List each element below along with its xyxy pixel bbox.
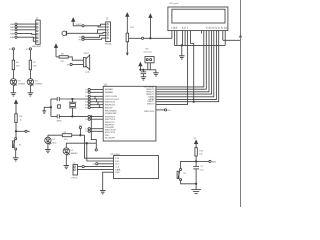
wire bus D1 xyxy=(156,31,204,87)
junction RA5 xyxy=(15,131,16,132)
svg-text:RB1/RX/DT: RB1/RX/DT xyxy=(105,116,116,118)
svg-text:S1: S1 xyxy=(19,144,22,146)
wire junction to node xyxy=(17,130,25,132)
switch S1 xyxy=(12,138,22,150)
U1 pin TX xyxy=(85,118,103,121)
resistor R4 xyxy=(15,114,23,123)
junction bus RW xyxy=(193,101,194,102)
svg-text:RA1: RA1 xyxy=(10,26,15,29)
svg-text:D3: D3 xyxy=(18,80,22,82)
ground S1 xyxy=(13,158,19,161)
5V supply arrow R11 xyxy=(126,13,129,33)
wire 5V to R6 xyxy=(12,50,14,60)
U1 pin LED1 xyxy=(85,128,103,131)
svg-text:RA3/AN3: RA3/AN3 xyxy=(105,91,114,94)
wire trimmer rail xyxy=(140,69,156,71)
wire R7 to D4 xyxy=(29,70,31,79)
node aux xyxy=(95,149,97,151)
5V supply arrow J1 xyxy=(72,18,82,26)
svg-text:TX0: TX0 xyxy=(115,158,120,160)
node 5V mid xyxy=(79,125,82,135)
svg-text:J1: J1 xyxy=(106,18,109,20)
wire bus D4 xyxy=(156,31,212,95)
wire 5V to R7 xyxy=(29,50,31,60)
ground U2 xyxy=(100,191,106,194)
microcontroller U1 xyxy=(103,84,156,141)
svg-text:C1: C1 xyxy=(200,166,204,168)
svg-text:SERIAL: SERIAL xyxy=(105,43,113,46)
svg-text:RA0: RA0 xyxy=(10,23,15,26)
connector J4 xyxy=(72,163,78,180)
LCD module LCD1 xyxy=(168,3,228,31)
wire bus D0 stub xyxy=(200,31,202,34)
wire J1 pin3 jog xyxy=(98,30,106,34)
svg-text:RA3: RA3 xyxy=(10,32,15,35)
capacitor C4 xyxy=(57,114,59,118)
svg-text:SCL: SCL xyxy=(167,110,172,112)
U1 jog wires left xyxy=(95,96,99,107)
junction resonator ground tap xyxy=(50,107,51,108)
ground LCD xyxy=(179,56,185,59)
svg-text:(trimmer): (trimmer) xyxy=(144,51,152,54)
node 5V U2 xyxy=(93,163,114,166)
wire D3 to ground xyxy=(12,85,14,93)
wire S2 branch xyxy=(181,161,197,168)
resistor R3 xyxy=(59,54,68,64)
svg-text:RED: RED xyxy=(52,142,57,144)
wire LCD pin3 stub xyxy=(173,31,175,46)
wire bus D3 xyxy=(156,31,209,92)
wire D2 rail xyxy=(66,142,96,144)
svg-text:VCC: VCC xyxy=(115,164,120,166)
border right xyxy=(240,0,242,207)
speaker SPK1 xyxy=(83,53,90,73)
svg-text:R10: R10 xyxy=(199,150,204,152)
svg-text:220: 220 xyxy=(61,61,65,63)
svg-text:RB2/TX/CK: RB2/TX/CK xyxy=(105,119,116,121)
wire LCD pin RS stub xyxy=(182,31,184,46)
U1 pin OSCA xyxy=(88,98,103,100)
U1 right pin names xyxy=(144,86,155,114)
switch S2 xyxy=(177,168,186,180)
wire S2 to ground xyxy=(181,181,197,184)
node 0V speaker xyxy=(67,63,72,66)
ground D1 xyxy=(45,150,51,153)
svg-text:5V: 5V xyxy=(9,49,12,51)
wire R4 to S1 xyxy=(15,123,17,138)
junction D2 rail xyxy=(86,143,87,144)
wire RA2 to J2 xyxy=(17,29,36,31)
node VOUT xyxy=(76,24,85,27)
junction 5V rail xyxy=(80,135,81,136)
U1 pin LED2 xyxy=(85,130,103,133)
U1 pin RB7 xyxy=(85,104,103,107)
svg-text:R7: R7 xyxy=(33,62,37,64)
LED D2 xyxy=(63,143,78,155)
resistor R2 xyxy=(62,132,71,141)
svg-text:5V: 5V xyxy=(194,138,197,140)
svg-text:R6: R6 xyxy=(16,62,20,64)
U1 pin RB6 xyxy=(85,101,103,104)
wire rail to U2 RX xyxy=(87,143,114,161)
svg-text:AMBER: AMBER xyxy=(71,152,79,155)
svg-text:D4: D4 xyxy=(35,80,39,82)
connector J1 xyxy=(105,18,113,45)
node 5V LCD xyxy=(141,37,143,39)
wire VOUT to J1 xyxy=(84,24,106,26)
wire LCD pin2 stub xyxy=(171,31,173,39)
svg-text:RA4: RA4 xyxy=(10,36,15,39)
crystal circuit wire OSC1 xyxy=(51,98,88,100)
5V supply arrow R10 xyxy=(194,138,198,148)
wire rail to U2 TX xyxy=(85,135,114,158)
junction 5V arrow LCD xyxy=(150,38,151,39)
wire bus D7 xyxy=(156,31,219,102)
svg-text:R8: R8 xyxy=(146,48,150,50)
module U2 xyxy=(110,154,158,179)
wire J4 pin1 to U2 xyxy=(78,166,114,168)
svg-text:DATA: DATA xyxy=(115,168,121,171)
svg-text:RA2/AN2: RA2/AN2 xyxy=(105,88,114,91)
connector J2 xyxy=(32,18,42,48)
svg-text:MCLR/VPP: MCLR/VPP xyxy=(105,137,116,139)
wire R3 to speaker xyxy=(68,57,83,60)
node RA3 xyxy=(10,32,17,35)
5V supply arrow LCD xyxy=(149,14,152,38)
wire MIC1 to J1 xyxy=(67,32,106,35)
wire bus D6 xyxy=(156,31,217,100)
svg-text:S2: S2 xyxy=(183,173,186,175)
svg-text:audio: audio xyxy=(85,71,91,73)
wire RA4 to J2 xyxy=(17,36,36,39)
wire R6 to D3 xyxy=(12,70,14,79)
LCD pin ticks xyxy=(172,27,227,29)
ground D4 xyxy=(28,93,34,96)
svg-text:GND: GND xyxy=(115,172,120,174)
svg-text:PROG: PROG xyxy=(72,177,78,179)
wire RA3 to J2 xyxy=(17,32,36,35)
svg-text:RB0/INT: RB0/INT xyxy=(105,107,113,109)
U1 pin OSC2 xyxy=(85,91,103,94)
node 5V LED1 xyxy=(9,48,14,51)
resistor R7 xyxy=(29,60,37,69)
wire RA0 to J2 xyxy=(17,23,36,25)
wire LCD pin E to bus xyxy=(156,31,188,105)
wire U2 ground L xyxy=(103,172,114,190)
svg-text:0V: 0V xyxy=(67,64,70,66)
5V supply arrow left chain xyxy=(15,100,18,114)
wire R10 to C1 xyxy=(195,156,197,166)
wire resonator ground xyxy=(44,107,51,111)
capacitor C1 xyxy=(193,166,204,184)
crystal circuit wire OSC2 xyxy=(51,115,88,117)
wire LCD pin5 stub xyxy=(176,31,178,46)
wire U1 aux vertical xyxy=(91,116,96,148)
svg-text:RA4/T0CKI: RA4/T0CKI xyxy=(105,101,116,104)
wire trimmer ground xyxy=(155,70,157,73)
LED D4 xyxy=(27,79,42,86)
resonator center block xyxy=(58,105,61,108)
wire PI3 to J1 xyxy=(84,35,106,37)
resistor R6 xyxy=(12,60,20,69)
svg-text:R4: R4 xyxy=(20,116,24,118)
crystal X1 xyxy=(57,98,77,122)
wire S1 to ground xyxy=(15,150,17,158)
svg-text:RA5/MCLR: RA5/MCLR xyxy=(105,104,116,107)
wire node to speaker xyxy=(72,64,83,66)
junction ground bottom xyxy=(195,183,196,184)
wire R11 down arrow xyxy=(126,42,129,56)
wire R11 to LCD 5V xyxy=(129,37,142,39)
wire LCD backlight 5V xyxy=(223,31,242,41)
junction AN0 xyxy=(195,161,196,162)
wire J4 pin2 to U2 xyxy=(78,168,114,170)
svg-text:330: 330 xyxy=(16,65,20,67)
wire ground drop LCD xyxy=(181,45,183,55)
svg-text:5V: 5V xyxy=(26,49,29,51)
U2 pin names xyxy=(115,158,121,174)
ground D2 xyxy=(64,166,70,169)
svg-text:PIEZO/SCL: PIEZO/SCL xyxy=(144,111,155,113)
5V supply arrow trimmer xyxy=(139,63,142,71)
trimmer R8 xyxy=(144,48,155,69)
LED D3 xyxy=(10,79,25,86)
node RA2 xyxy=(10,29,17,32)
U1 left pin names xyxy=(105,88,120,139)
wire node to LCD pin xyxy=(144,37,172,39)
wire D1 ground xyxy=(47,144,49,150)
ground trimmer xyxy=(153,73,159,76)
node AN0 xyxy=(196,160,217,163)
svg-text:SPK1: SPK1 xyxy=(84,53,90,55)
wire J2 pin6 stub xyxy=(33,38,35,42)
wire LCD pin5 to bus xyxy=(191,31,194,102)
microphone MIC1 xyxy=(62,31,67,36)
ground C2 xyxy=(141,77,147,80)
svg-text:VUSB/VCAP: VUSB/VCAP xyxy=(105,112,117,115)
svg-text:RB5/SS/AN4: RB5/SS/AN4 xyxy=(105,109,117,112)
svg-text:R11: R11 xyxy=(130,27,135,29)
svg-text:VOUT: VOUT xyxy=(76,24,83,26)
svg-text:10k: 10k xyxy=(199,154,203,156)
svg-text:4MHz: 4MHz xyxy=(57,120,62,122)
node RA4 xyxy=(10,36,17,39)
wire bus D5 xyxy=(156,31,214,97)
ground resonator xyxy=(42,111,46,114)
wire 5V rail LEDs xyxy=(48,134,85,136)
wire J1 pin2 stub xyxy=(98,26,106,27)
node RA5 xyxy=(25,130,30,132)
wire RA1 to J2 xyxy=(17,26,36,28)
svg-text:OSC2/CLKOUT: OSC2/CLKOUT xyxy=(105,99,120,101)
capacitor C3 xyxy=(57,97,59,101)
svg-text:LCD panel: LCD panel xyxy=(169,3,179,5)
wire D4 to ground xyxy=(29,85,31,93)
U1 pin RX xyxy=(88,115,103,117)
svg-text:OSC1/CLKIN: OSC1/CLKIN xyxy=(105,96,117,98)
wire ground stub xyxy=(195,184,197,190)
svg-text:330: 330 xyxy=(33,65,37,67)
svg-text:GREEN: GREEN xyxy=(18,84,26,86)
node PI3 xyxy=(79,36,84,39)
capacitor C2 xyxy=(141,69,147,77)
wire LCD ground rail xyxy=(174,44,225,46)
wire bus D2 xyxy=(156,31,206,90)
resistor R11 xyxy=(126,27,135,42)
svg-text:RA2: RA2 xyxy=(10,29,15,32)
U1 pin OSC1 xyxy=(85,88,103,91)
node 5V LED2 xyxy=(26,48,31,51)
svg-text:330: 330 xyxy=(64,139,68,141)
svg-text:CLK: CLK xyxy=(115,167,120,169)
ground D3 xyxy=(11,93,17,96)
wire LCD pin RW stub xyxy=(184,31,186,46)
node SCL U1 xyxy=(156,109,172,112)
svg-text:5V: 5V xyxy=(79,125,82,127)
svg-text:RA0-RA4: RA0-RA4 xyxy=(32,45,42,48)
node RA1 xyxy=(10,26,17,29)
wire LCD pin16 stub xyxy=(224,31,226,46)
svg-text:RX0: RX0 xyxy=(115,161,120,163)
wire PI2 to J1 xyxy=(84,38,106,39)
svg-text:GREEN: GREEN xyxy=(35,84,43,86)
5V supply arrow R3 xyxy=(55,44,60,57)
svg-text:10u: 10u xyxy=(200,169,204,171)
LED D1 xyxy=(45,135,57,144)
node PI2 xyxy=(79,38,84,41)
ground main xyxy=(191,190,201,194)
svg-text:EN/DT0: EN/DT0 xyxy=(147,104,155,106)
node RA0 xyxy=(10,23,17,26)
svg-text:AN0: AN0 xyxy=(212,160,217,163)
U1 pin RB4 xyxy=(85,95,103,98)
resistor R10 xyxy=(195,148,204,156)
junction LCD ground xyxy=(181,45,182,46)
wire resonator left rail xyxy=(50,99,52,116)
svg-text:D1: D1 xyxy=(52,139,56,141)
U1 pin INT xyxy=(85,107,103,110)
svg-text:D2: D2 xyxy=(71,150,75,152)
svg-text:1k: 1k xyxy=(20,119,23,121)
wire D2 ground xyxy=(65,154,67,165)
